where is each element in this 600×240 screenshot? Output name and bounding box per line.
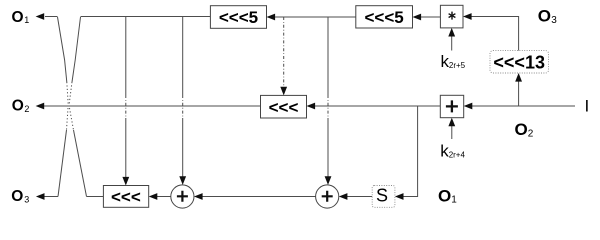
- svg-text:<<<: <<<: [269, 98, 299, 117]
- svg-text:O: O: [12, 9, 24, 26]
- svg-text:O: O: [11, 188, 23, 205]
- svg-text:<<<5: <<<5: [364, 8, 403, 27]
- svg-text:O: O: [538, 7, 551, 26]
- svg-text:1: 1: [451, 195, 457, 206]
- svg-text:3: 3: [24, 194, 29, 204]
- svg-text:2: 2: [528, 128, 534, 139]
- svg-text:2r+5: 2r+5: [449, 61, 466, 70]
- svg-text:I: I: [585, 96, 590, 115]
- svg-text:O: O: [12, 98, 24, 115]
- svg-text:O: O: [438, 186, 451, 205]
- svg-text:1: 1: [24, 15, 29, 25]
- svg-text:2: 2: [24, 104, 29, 114]
- svg-text:S: S: [376, 186, 388, 206]
- svg-text:<<<13: <<<13: [493, 52, 545, 72]
- svg-text:O: O: [515, 120, 528, 139]
- svg-text:<<<: <<<: [111, 188, 141, 207]
- svg-text:3: 3: [551, 15, 557, 26]
- svg-text:2r+4: 2r+4: [449, 150, 466, 159]
- svg-text:<<<5: <<<5: [219, 8, 258, 27]
